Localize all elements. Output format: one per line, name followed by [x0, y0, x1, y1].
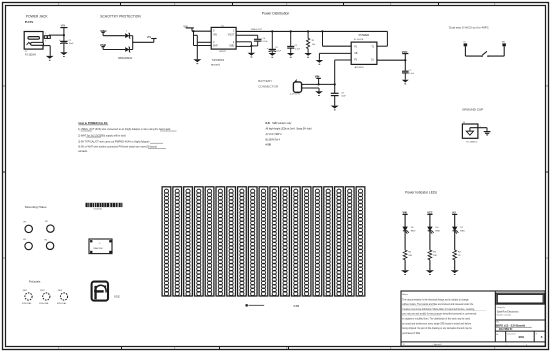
- terminal VIN (top left): [100, 29, 107, 36]
- wire switch mid pin to gnd: [319, 53, 351, 60]
- ground under R4: [451, 270, 459, 275]
- frame column ticks top: [121, 2, 439, 6]
- switch S1: [351, 42, 377, 69]
- svg-text:RED: RED: [436, 230, 441, 232]
- svg-text:UB: UB: [354, 53, 358, 55]
- fiducial FID2: [39, 290, 50, 305]
- wire cap C1 to ground: [63, 43, 65, 52]
- svg-text:BYP: BYP: [213, 46, 218, 48]
- bottom strip marks: [403, 344, 528, 347]
- svg-text:10uF: 10uF: [69, 43, 74, 45]
- wire JST pin1 to VIN net: [305, 83, 335, 85]
- wire VIN to diode D1: [103, 35, 125, 37]
- connector column X5: [205, 187, 214, 296]
- svg-text:VOUT: VOUT: [228, 35, 235, 37]
- note NB line 1: [266, 122, 293, 125]
- logo box: [496, 293, 544, 304]
- note emphasis marks: [81, 131, 177, 148]
- svg-text:GROUND CUP: GROUND CUP: [462, 107, 483, 111]
- title block bottom strip line: [401, 341, 545, 343]
- connector column X3: [184, 187, 193, 296]
- logo flame: [92, 282, 108, 301]
- wire switch loop: [321, 30, 387, 46]
- svg-text:LM1117: LM1117: [219, 51, 227, 53]
- title bottom row divider: [495, 330, 545, 332]
- svg-text:around: around: [211, 63, 220, 67]
- switch lever: [482, 51, 487, 55]
- junction node jack/cap: [63, 34, 65, 36]
- svg-text:0.1uF: 0.1uF: [295, 48, 301, 50]
- ground under C2: [269, 53, 277, 58]
- svg-text:POWER JACK: POWER JACK: [26, 15, 49, 19]
- mounting hole H1: [24, 222, 33, 233]
- svg-text:RED: RED: [460, 230, 465, 232]
- note heading How to POWER: [79, 121, 109, 125]
- voltage regulator U1: [211, 26, 236, 54]
- capacitor C2 column: [267, 30, 282, 53]
- mounting hole H4: [44, 239, 53, 249]
- wire pads with switch gap: [465, 55, 504, 57]
- JST connector J2: [290, 79, 305, 96]
- connector column X15: [313, 187, 322, 296]
- svg-text:1: 1: [45, 33, 46, 35]
- connector column X16: [324, 187, 333, 296]
- wire C4 to gnd junction: [251, 41, 257, 46]
- wire cup to gnd: [470, 126, 487, 131]
- svg-text:POWER: POWER: [359, 33, 370, 37]
- resistor R4: [453, 250, 462, 260]
- title text: [496, 320, 532, 331]
- svg-text:X3B: X3B: [293, 304, 299, 308]
- svg-text:13-00101: 13-00101: [93, 209, 103, 211]
- svg-text:N.B.: N.B.: [266, 122, 271, 125]
- wire VIN to U1 pin IN: [192, 30, 211, 32]
- connector column X4: [194, 187, 203, 296]
- wire U1 GND pins: [236, 42, 252, 53]
- connector column X10: [259, 187, 268, 296]
- connector column X2: [173, 187, 182, 296]
- barcode: [86, 203, 123, 211]
- svg-text:4) 9V or WHT wire bodies conne: 4) 9V or WHT wire bodies connected PIN b…: [78, 146, 157, 149]
- svg-text:1) VREG_OUT (3V3) wire connect: 1) VREG_OUT (3V3) wire connected to an (…: [78, 128, 171, 131]
- svg-text:10uF: 10uF: [341, 95, 346, 97]
- svg-text:~ bps.sch: ~ bps.sch: [432, 344, 442, 346]
- capacitor C4: [254, 38, 268, 43]
- wire jack pin2 down: [43, 46, 50, 56]
- svg-text:TP_5MM_D: TP_5MM_D: [466, 141, 478, 143]
- ground switch mid: [316, 60, 324, 65]
- wire U1 gnd routing: [194, 35, 212, 59]
- svg-text:Design by:: Design by:: [497, 307, 506, 309]
- LED D6: [428, 227, 441, 234]
- svg-text:PJ-102AH: PJ-102AH: [25, 54, 36, 57]
- capacitor C3 column: [287, 30, 300, 53]
- frame row tick left: [3, 171, 6, 173]
- wire 3.3V rail: [236, 30, 387, 32]
- svg-text:S1 SLIDE: S1 SLIDE: [354, 39, 364, 41]
- mounting hole H3: [23, 239, 32, 250]
- svg-text:SPX3819: SPX3819: [212, 58, 225, 62]
- resistor R1 column: [307, 30, 316, 53]
- svg-text:2-JST-PH: 2-JST-PH: [290, 94, 300, 96]
- svg-text:2) WHT for 3v2 ZV2380d supply: 2) WHT for 3v2 ZV2380d supply will be bo…: [78, 134, 126, 137]
- ground under C8: [331, 106, 339, 111]
- wire resistor to gnd: [429, 260, 431, 270]
- ground under U1 output side: [248, 53, 256, 58]
- svg-text:SCHOTTKY PROTECTION: SCHOTTKY PROTECTION: [100, 15, 141, 19]
- connector column X13: [291, 187, 300, 296]
- svg-text:RED: RED: [411, 230, 416, 232]
- LED chain D7: [452, 212, 457, 227]
- wire jack pin1 to VIN node: [49, 34, 64, 36]
- LED chain D5: [403, 212, 408, 227]
- svg-text:4: 4: [526, 345, 527, 347]
- resistor R3: [428, 250, 437, 260]
- svg-text:0.1uF: 0.1uF: [409, 73, 415, 75]
- disclaimer underlines: [402, 306, 486, 316]
- ground under R1: [304, 53, 312, 58]
- connector column X9: [248, 187, 257, 296]
- connector column X18: [345, 187, 354, 296]
- svg-text:# 5B: # 5B: [266, 143, 271, 146]
- terminal VUSB (bottom left): [100, 43, 106, 49]
- connector column X14: [302, 187, 311, 296]
- connector column X19: [356, 187, 365, 296]
- wire JST pin2 to gnd: [305, 88, 319, 91]
- svg-text:10uF: 10uF: [276, 50, 281, 52]
- svg-text:PJ 5V: PJ 5V: [25, 20, 34, 24]
- svg-text:contacts: contacts: [78, 150, 88, 153]
- pad P2: [502, 41, 506, 57]
- connector column X8: [238, 187, 247, 296]
- svg-text:GND: GND: [229, 46, 234, 48]
- rev cell: [536, 334, 543, 339]
- earth ground symbol: [484, 132, 491, 135]
- LED D5: [403, 227, 416, 234]
- svg-text:All high-bright LEDs at 3mA. S: All high-bright LEDs at 3mA. Swap 5% hol…: [266, 128, 313, 131]
- svg-text:X1E: X1E: [114, 294, 120, 298]
- wire LED to resistor: [454, 231, 456, 250]
- wire resistor to gnd: [404, 260, 406, 270]
- power jack J1: [24, 32, 43, 50]
- svg-text:D: D: [546, 257, 548, 260]
- wire resistor to gnd: [454, 260, 456, 270]
- power flag VIN (jack): [60, 24, 67, 42]
- title block divider vertical: [494, 291, 496, 342]
- wire diode cathodes join: [129, 36, 132, 50]
- junction battery/switch: [334, 83, 336, 85]
- fiducial FID1: [22, 290, 32, 305]
- connector column X6: [216, 187, 225, 296]
- svg-text:A) VCC VMP 4: A) VCC VMP 4: [266, 133, 283, 136]
- ground under R2: [401, 270, 409, 275]
- wire LED to resistor: [404, 231, 406, 250]
- capacitor C7: [402, 70, 415, 79]
- ground cup X4 box: [462, 124, 478, 143]
- title divider: [495, 319, 545, 321]
- connector column X17: [335, 187, 344, 296]
- wire switch out to VCC: [377, 59, 405, 61]
- ground under C7: [402, 80, 409, 85]
- diode D1: [125, 33, 130, 38]
- wire LED to resistor: [429, 231, 431, 250]
- ground under jack: [46, 56, 54, 61]
- wire output to VIN flag: [133, 35, 157, 42]
- svg-text:VIN: VIN: [213, 35, 217, 37]
- svg-text:1: 1: [480, 126, 481, 128]
- svg-text:10k: 10k: [312, 44, 315, 46]
- resistor R2: [403, 250, 412, 260]
- svg-text:Fiducials: Fiducials: [29, 280, 41, 284]
- design by block: [497, 307, 520, 316]
- svg-text:CONNECTOR: CONNECTOR: [258, 84, 279, 88]
- power flag VCC: [402, 50, 409, 71]
- ground left of U1: [193, 59, 201, 64]
- connector column X7: [227, 187, 236, 296]
- mounting hole H2: [45, 221, 54, 232]
- svg-text:2.2uF: 2.2uF: [263, 41, 269, 43]
- label sticker box: [89, 239, 112, 254]
- connector column X1: [162, 187, 171, 296]
- ground under C1: [60, 52, 68, 57]
- svg-text:Boulder, Colorado: Boulder, Colorado: [497, 314, 511, 316]
- power flag VIN (regulator input): [183, 25, 194, 31]
- frame row tick right: [545, 171, 548, 173]
- svg-text:Power Distribution: Power Distribution: [262, 11, 290, 15]
- svg-text:MBR120ESF: MBR120ESF: [118, 57, 132, 60]
- svg-text:Power Indicator LEDs: Power Indicator LEDs: [405, 191, 437, 195]
- ground JST pin2: [315, 91, 323, 96]
- section label BATTERY CONNECTOR: [258, 79, 279, 88]
- svg-text:2: 2: [45, 40, 46, 42]
- svg-text:Mounting Holes: Mounting Holes: [25, 205, 47, 209]
- ground under C3: [287, 53, 295, 58]
- svg-text:3) 9V TYPICAL/OT wire carry ou: 3) 9V TYPICAL/OT wire carry out PWRND 4X…: [78, 140, 150, 143]
- power jack pin 1 pads: [44, 36, 47, 39]
- ground under R3: [426, 270, 434, 275]
- svg-text:B) 500V/Tol 4: B) 500V/Tol 4: [266, 139, 281, 142]
- frame column ticks bottom: [122, 346, 289, 350]
- capacitor C1 (polarized): [59, 40, 74, 45]
- wire switch to battery line: [335, 60, 352, 84]
- connector column X11: [270, 187, 279, 296]
- svg-text:BATTERY: BATTERY: [258, 79, 272, 83]
- diode D2: [125, 47, 130, 52]
- fiducial FID3: [57, 290, 68, 305]
- power flag VIN (battery): [315, 75, 321, 86]
- array label line: [246, 304, 265, 306]
- svg-text:D: D: [3, 257, 5, 260]
- LED D7: [453, 227, 466, 234]
- wire EN loop: [192, 30, 211, 45]
- svg-text:SMD solution only: SMD solution only: [272, 122, 292, 125]
- pad P1: [463, 42, 467, 57]
- svg-text:3: 3: [126, 30, 127, 32]
- wire U1 BYP to C4: [236, 35, 258, 39]
- capacitor C8: [331, 84, 347, 105]
- document cell: [507, 331, 534, 342]
- connector column X12: [281, 187, 290, 296]
- wire VUSB to diode D2: [103, 49, 125, 51]
- title block outer: [401, 291, 545, 346]
- LED chain D6: [427, 212, 432, 227]
- date cell: [496, 331, 506, 342]
- svg-text:Dual step 9 VAC0 ton for 49PC: Dual step 9 VAC0 ton for 49PC: [449, 25, 489, 29]
